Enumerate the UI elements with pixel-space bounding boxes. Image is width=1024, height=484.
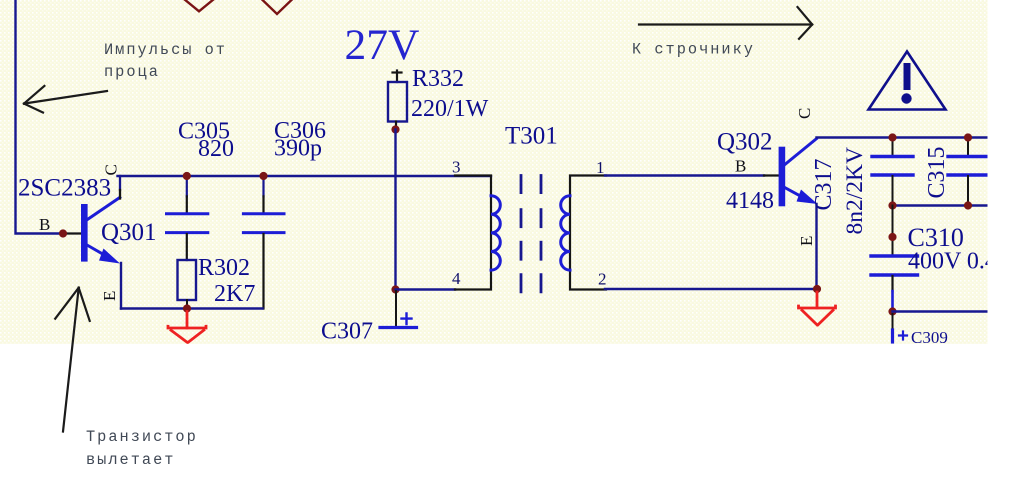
svg-text:вылетает: вылетает [86, 451, 175, 469]
transformer left frame [455, 176, 491, 290]
svg-text:E: E [100, 291, 119, 301]
junction dot Q302 emitter [813, 285, 821, 293]
capacitor C306 stub bottom [262, 234, 264, 309]
svg-text:C317: C317 [811, 158, 837, 210]
transistor Q302 collector lead [785, 139, 816, 165]
capacitor C306 plates [243, 214, 284, 233]
svg-text:4: 4 [452, 269, 461, 288]
warning triangle [869, 52, 946, 110]
junction dot C305 top [183, 172, 191, 180]
svg-text:T301: T301 [505, 123, 558, 150]
warning exclamation bar [904, 63, 911, 90]
capacitor C306 stub top [262, 176, 264, 196]
svg-text:R332: R332 [412, 66, 464, 92]
junction dot C317 bottom [888, 201, 896, 209]
capacitor C317 stub bottom [892, 176, 894, 206]
svg-text:220/1W: 220/1W [411, 96, 489, 122]
transistor Q301 emitter lead [87, 245, 107, 257]
resistor R332 stub bottom [395, 122, 397, 128]
arrow transistor fails [55, 288, 89, 432]
svg-text:Транзистор: Транзистор [86, 428, 198, 446]
svg-text:E: E [797, 236, 816, 246]
svg-text:R302: R302 [198, 255, 250, 281]
svg-text:B: B [735, 157, 746, 176]
svg-text:C315: C315 [924, 146, 950, 198]
wire: 27V to R332 [396, 71, 398, 83]
capacitor C315 stub top [967, 138, 969, 157]
junction dot R332 bottom [391, 125, 399, 133]
arrow to line output [639, 7, 812, 39]
resistor R302 stub bottom [186, 300, 188, 309]
transformer left winding arcs [491, 196, 500, 270]
ground symbol below R302 [168, 312, 206, 343]
svg-text:2SC2383: 2SC2383 [18, 175, 111, 202]
transformer right frame [570, 176, 606, 290]
transistor Q301 body bar [81, 204, 88, 262]
svg-text:820: 820 [198, 136, 234, 162]
transistor Q301 collector lead [87, 198, 120, 220]
transistor Q302 emitter arrow [797, 190, 818, 205]
node B junction dot [59, 229, 67, 237]
capacitor C317 plates [872, 157, 913, 176]
transistor Q302 body bar [779, 147, 786, 207]
svg-text:C307: C307 [321, 319, 373, 345]
transistor Q302 emitter lead [785, 188, 803, 198]
capacitor C305 stub top [186, 176, 188, 196]
capacitor C305 plates [167, 214, 208, 233]
capacitor C310 stub bottom [891, 276, 893, 291]
junction dot C315 bottom [964, 201, 972, 209]
svg-text:2K7: 2K7 [214, 281, 255, 307]
wire: base stub (black) [62, 232, 81, 234]
ground symbol below Q302 [799, 292, 836, 325]
connector diamond 1 (cut off at top) [184, 0, 214, 11]
capacitor C315 stub bottom [967, 176, 969, 206]
svg-text:390p: 390p [274, 136, 322, 162]
svg-text:C309: C309 [911, 328, 948, 347]
svg-text:проца: проца [104, 63, 160, 81]
transistor Q301 emitter arrow [99, 249, 120, 264]
schematic background [0, 0, 988, 344]
svg-text:B: B [39, 215, 50, 234]
wire: down to C310 [892, 206, 894, 257]
wire: Q302 base stub (black) [764, 174, 779, 176]
wire: Q301 collector stub [119, 176, 121, 190]
warning exclamation dot [901, 93, 911, 103]
junction dot C306 top [259, 172, 267, 180]
wire: left input to base of Q301 [16, 0, 63, 234]
capacitor C315 plates [948, 157, 988, 176]
svg-text:К строчнику: К строчнику [632, 41, 755, 59]
svg-text:4148: 4148 [726, 188, 774, 214]
junction dot C310 bottom [888, 307, 896, 315]
svg-text:Q301: Q301 [101, 219, 157, 246]
junction dot above C310 [888, 233, 896, 241]
capacitor C309 stub [892, 314, 894, 330]
junction dot C307 node [391, 285, 399, 293]
capacitor C305 stub bottom [186, 234, 188, 260]
svg-text:Q302: Q302 [717, 129, 773, 156]
resistor R332 body [388, 82, 407, 122]
svg-text:C: C [795, 108, 814, 119]
capacitor C309 lead (cut off) [891, 330, 894, 342]
junction dot C315 top [964, 133, 972, 141]
capacitor C307 plate [380, 326, 417, 329]
svg-text:27V: 27V [345, 21, 420, 69]
junction dot C317 top [888, 133, 896, 141]
svg-text:400V 0.4: 400V 0.4 [908, 249, 997, 275]
wire: Q302 collector net (top right) [817, 136, 988, 138]
arrow from processor [24, 86, 107, 113]
wire: Q302 emitter down [815, 204, 817, 289]
junction dot R302 bottom [183, 304, 191, 312]
capacitor C307 polarity + [402, 314, 412, 325]
svg-text:Импульсы от: Импульсы от [104, 41, 227, 59]
wire: node to transformer pin 4 [396, 288, 456, 290]
wire: R332 down to C307 node [394, 130, 396, 290]
resistor R302 body [178, 260, 197, 300]
wire: emitter net [121, 307, 263, 309]
capacitor C317 stub top [892, 138, 894, 157]
wire: pin 2 to Q302 emitter node [605, 288, 817, 290]
wire: mid right net [893, 204, 988, 206]
transformer core dashes [521, 176, 541, 292]
wire: pin 1 to Q302 base [605, 174, 764, 176]
svg-text:1: 1 [596, 158, 605, 177]
wire: collector net (top horizontal) [118, 175, 492, 177]
svg-text:3: 3 [452, 158, 461, 177]
capacitor C310 plates [871, 256, 918, 275]
svg-text:2: 2 [598, 270, 607, 289]
capacitor C307 stub [395, 291, 397, 327]
svg-text:8n2/2KV: 8n2/2KV [842, 147, 868, 235]
wire: Q301 emitter down [120, 263, 122, 309]
wire: bottom right net [893, 310, 987, 312]
connector diamond 2 (cut off at top) [262, 0, 293, 14]
capacitor C309 polarity + [899, 332, 907, 340]
transformer right winding arcs [561, 196, 570, 270]
power rail tick [393, 71, 402, 73]
